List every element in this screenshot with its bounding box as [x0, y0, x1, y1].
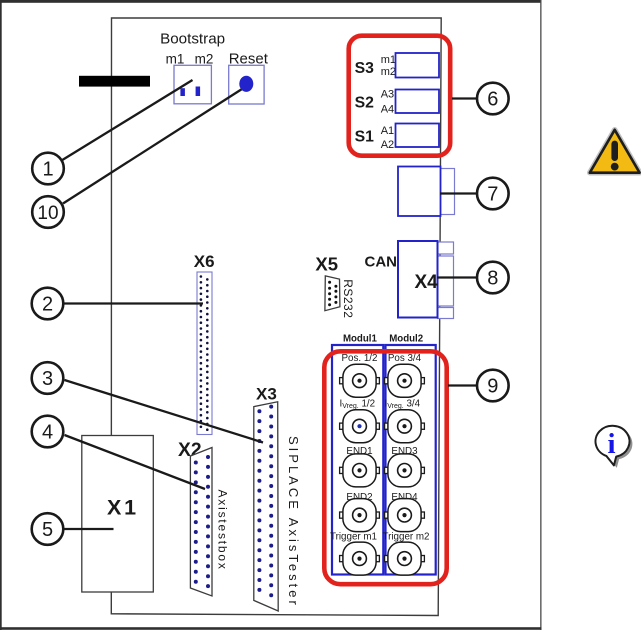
jumper m2	[196, 87, 201, 97]
jumper m1	[180, 88, 185, 96]
svg-text:m2: m2	[381, 66, 396, 78]
connector X1 box	[82, 436, 154, 593]
leader line callout 10 to reset button	[63, 89, 242, 204]
callout circle 4	[32, 416, 64, 448]
reset box	[229, 65, 264, 104]
svg-text:2: 2	[42, 294, 53, 316]
svg-text:Pos. 1/2: Pos. 1/2	[342, 353, 378, 364]
svg-text:Bootstrap: Bootstrap	[160, 30, 225, 47]
BNC connector Ivreg. 3/4	[385, 410, 425, 443]
page frame left border	[0, 0, 2, 630]
red highlight frame item 9	[324, 351, 446, 584]
svg-text:S2: S2	[355, 95, 375, 112]
svg-text:6: 6	[487, 89, 498, 111]
connector X5 (RS232 DB9)	[325, 276, 340, 311]
page frame bottom border	[0, 627, 542, 630]
BNC connector END1	[340, 454, 380, 487]
svg-text:SIPLACE AxisTester: SIPLACE AxisTester	[286, 436, 301, 608]
board outline (SIPLACE AxisTester front panel)	[111, 18, 441, 616]
callout circle 3	[32, 362, 64, 394]
BNC column Modul1 box	[332, 345, 383, 575]
warning triangle icon	[590, 130, 640, 173]
BNC connector Pos 3/4	[385, 364, 425, 397]
svg-text:Trigger m2: Trigger m2	[383, 531, 430, 542]
svg-text:S3: S3	[355, 60, 375, 77]
svg-text:X5: X5	[315, 254, 338, 275]
connector X4 box	[398, 241, 438, 318]
svg-text:m1: m1	[381, 54, 396, 66]
bootstrap jumper box	[174, 65, 211, 104]
black bar marker (left edge)	[79, 76, 150, 87]
leader line callout 8	[437, 276, 477, 278]
switch S3 box	[396, 53, 440, 78]
leader line callout 2 to X6	[65, 302, 204, 304]
leader line callout 5 to X1	[65, 528, 114, 530]
callout circle 6	[477, 83, 509, 115]
leader line callout 3 to X3	[65, 380, 264, 443]
switch S1 box	[396, 124, 440, 148]
connector X6 (pin strip)	[197, 272, 212, 435]
leader line callout 9	[448, 384, 477, 386]
svg-text:X3: X3	[256, 385, 277, 404]
callout circle 10	[32, 196, 64, 228]
BNC connector END2	[340, 499, 380, 532]
svg-text:m2: m2	[195, 51, 214, 66]
svg-text:m1: m1	[166, 51, 185, 66]
connector item 7 side tab	[441, 169, 455, 215]
leader line callout 7	[440, 192, 477, 194]
leader line callout 1 to bootstrap jumpers	[62, 80, 193, 161]
BNC column Modul2 box	[386, 345, 436, 575]
svg-text:7: 7	[487, 184, 498, 206]
BNC connector Ivreg. 1/2	[340, 410, 380, 443]
svg-text:RS232: RS232	[341, 279, 355, 318]
svg-text:Trigger m1: Trigger m1	[330, 531, 377, 542]
svg-text:A4: A4	[381, 103, 394, 115]
BNC connector Pos. 1/2	[340, 364, 380, 397]
red highlight frame item 6	[349, 36, 451, 156]
switch S2 box	[396, 90, 440, 114]
svg-text:9: 9	[487, 376, 498, 398]
page frame right border	[540, 0, 541, 630]
page frame top border	[0, 0, 542, 3]
svg-text:8: 8	[487, 268, 498, 290]
svg-text:A2: A2	[381, 139, 394, 151]
svg-text:X1: X1	[107, 496, 139, 520]
svg-text:1: 1	[42, 159, 53, 181]
connector item 7 box	[398, 167, 441, 217]
svg-text:A1: A1	[381, 125, 394, 137]
svg-text:4: 4	[42, 422, 53, 444]
svg-text:Pos 3/4: Pos 3/4	[388, 353, 422, 364]
connector X3 (SIPLACE AxisTester)	[254, 402, 278, 611]
svg-text:CAN: CAN	[365, 254, 398, 271]
svg-text:i: i	[607, 428, 615, 460]
info icon (speech bubble)	[595, 426, 632, 468]
callout circle 5	[32, 513, 64, 545]
svg-text:3: 3	[42, 368, 53, 390]
callout circle 2	[32, 288, 64, 320]
BNC connector Trigger m2	[385, 542, 425, 575]
svg-text:Axistestbox: Axistestbox	[216, 490, 230, 571]
callout circle 7	[477, 178, 509, 210]
BNC connector Trigger m1	[340, 542, 380, 575]
connector X4 side tabs	[438, 242, 454, 319]
BNC connector END3	[385, 454, 425, 487]
svg-text:10: 10	[37, 203, 58, 224]
reset button	[239, 76, 253, 92]
callout circle 8	[477, 262, 509, 294]
callout circle 9	[477, 370, 509, 402]
svg-text:A3: A3	[381, 89, 394, 101]
leader line callout 6	[452, 97, 477, 99]
svg-text:Modul1: Modul1	[343, 333, 378, 344]
svg-text:5: 5	[42, 519, 53, 541]
connector X2 (Axistestbox)	[190, 448, 212, 597]
BNC connector END4	[385, 499, 425, 532]
callout circle 1	[32, 153, 64, 185]
svg-text:Modul2: Modul2	[389, 333, 423, 344]
svg-text:X4: X4	[415, 272, 439, 293]
leader line callout 4 to X2	[65, 435, 206, 489]
svg-text:S1: S1	[355, 129, 375, 146]
svg-text:X6: X6	[194, 252, 215, 271]
